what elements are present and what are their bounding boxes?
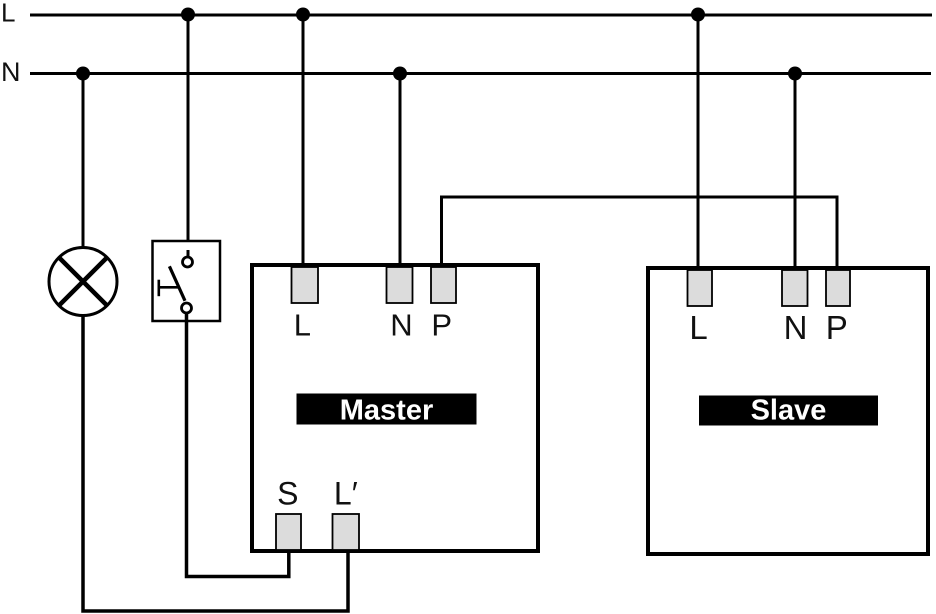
slave name plate <box>699 396 878 426</box>
lamp E1 <box>49 248 117 316</box>
slave terminal N <box>782 270 808 306</box>
master terminal P <box>431 267 456 303</box>
wire N to master terminal N <box>399 74 402 269</box>
slave box U2 <box>648 268 928 554</box>
master terminal L' <box>333 514 360 550</box>
svg-text:N: N <box>1 57 21 87</box>
master box U1 <box>252 265 538 551</box>
junction on L at switch drop <box>181 8 195 22</box>
svg-text:N: N <box>784 309 808 346</box>
svg-text:L: L <box>294 308 311 343</box>
junction on N at master N drop <box>393 67 407 81</box>
wire switch to S terminal <box>187 313 289 577</box>
master name plate <box>297 394 477 425</box>
junction on N at lamp drop <box>76 67 90 81</box>
svg-text:Slave: Slave <box>751 395 827 427</box>
wire L to slave terminal L <box>697 15 700 271</box>
wire L to switch <box>187 15 190 258</box>
net N bus line <box>30 72 931 75</box>
wire master P to slave P <box>442 197 838 271</box>
wire lamp bottom to L' terminal <box>83 316 348 612</box>
svg-text:P: P <box>431 308 452 343</box>
master terminal N <box>387 267 413 303</box>
svg-text:L′: L′ <box>334 476 358 512</box>
svg-text:P: P <box>826 309 848 346</box>
svg-text:N: N <box>390 308 412 343</box>
svg-text:L: L <box>1 0 15 28</box>
net L bus line <box>30 14 932 17</box>
slave terminal L <box>688 270 713 306</box>
wire N to slave terminal N <box>794 74 797 272</box>
junction on L at slave L drop <box>691 8 705 22</box>
wire L to master terminal L <box>302 15 305 268</box>
master terminal L <box>292 267 319 303</box>
junction on N at slave N drop <box>788 67 802 81</box>
svg-text:L: L <box>689 309 707 346</box>
master terminal S <box>276 514 301 550</box>
svg-text:Master: Master <box>340 395 434 427</box>
junction on L at master L drop <box>296 8 310 22</box>
wire N to lamp top <box>82 74 85 249</box>
svg-text:S: S <box>277 476 298 512</box>
switch S1 (push button) <box>153 241 221 321</box>
slave terminal P <box>826 270 850 306</box>
